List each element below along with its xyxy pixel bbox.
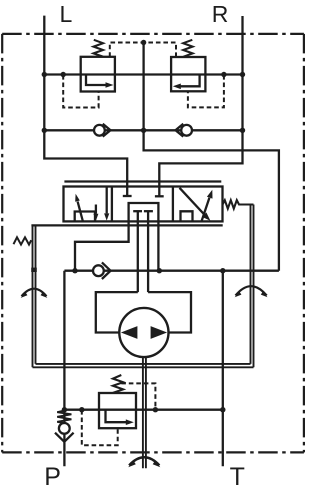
- svg-text:P: P: [44, 463, 61, 491]
- wire pilot/LS loop: [144, 43, 279, 271]
- steering shaft (double line): [143, 357, 146, 468]
- metering motor M1: [119, 308, 168, 357]
- DV right centering spring: [223, 200, 254, 208]
- wire L-R main: [44, 73, 242, 75]
- node T bottom junction: [220, 407, 225, 412]
- node RV3 bottom pilot tap: [79, 407, 84, 412]
- feedback rotary arc right: [236, 286, 267, 295]
- directional valve DV lower travel line: [31, 224, 222, 226]
- relief valve RV1 pilot line (bottom, dashed): [63, 75, 98, 108]
- feedback rotary arc left: [22, 289, 47, 297]
- relief valve RV2 internal arrow: [180, 75, 200, 87]
- directional valve DV upper travel line: [64, 180, 221, 182]
- relief valve RV3 pilot line (bottom, dashed): [82, 410, 118, 445]
- wire L port line: [44, 16, 127, 196]
- node R check-row junction: [240, 128, 245, 133]
- check valve C2: [181, 125, 192, 136]
- relief valve RV2 pilot line (bottom, dashed): [188, 75, 224, 107]
- steering wheel arc: [129, 457, 159, 465]
- node RV3 top pilot tap: [153, 407, 158, 412]
- wire motor bridge left: [96, 292, 138, 332]
- relief valve RV2 spring: [183, 40, 192, 57]
- wire P-T bottom row: [64, 409, 222, 411]
- relief valve RV1 body: [81, 57, 115, 92]
- DV right envelope diagonal arrow 1: [180, 188, 205, 215]
- node L main-wire junction: [42, 72, 47, 77]
- relief valve RV2 pilot line (top, dashed): [144, 43, 176, 58]
- DV centre envelope blocked port L (T-bar): [123, 195, 132, 197]
- svg-text:L: L: [60, 1, 73, 27]
- DV centre envelope blocked port R (T-bar): [155, 195, 164, 197]
- feedback linkage right (double line): [251, 205, 254, 368]
- wire check-valve row: [44, 129, 242, 131]
- node P line junction: [62, 407, 67, 412]
- wire T return line: [222, 271, 224, 467]
- DV left envelope long down arrow: [106, 187, 108, 213]
- DV left envelope chamber box: [75, 212, 95, 222]
- node mid check-row junction: [141, 128, 146, 133]
- wire DV metering line 2: [147, 211, 149, 292]
- relief valve RV3 pilot line (top, dashed): [121, 383, 155, 409]
- node RV1 pilot tap: [61, 72, 66, 77]
- wire R port line: [159, 16, 242, 196]
- directional valve DV envelope divider 2: [172, 187, 174, 222]
- directional valve DV body: [64, 187, 223, 222]
- wire DV P-metering port down to check C3: [75, 221, 129, 270]
- node C3 inlet junction: [72, 268, 77, 273]
- check valve C4 with spring: [59, 423, 70, 434]
- wire P supply line: [63, 271, 65, 467]
- relief valve RV3 body: [99, 393, 136, 428]
- relief valve RV3 spring: [113, 375, 123, 393]
- wire DV tank port down: [157, 221, 159, 270]
- node T riser junction: [220, 268, 225, 273]
- relief valve RV1 spring: [94, 40, 104, 57]
- DV left envelope short down arrow: [95, 205, 97, 214]
- DV left envelope diagonal arrow: [78, 202, 83, 222]
- node RV2 pilot tap: [221, 72, 226, 77]
- relief valve RV1 pilot line (top, dashed): [110, 43, 144, 57]
- relief valve RV2 body: [171, 57, 205, 91]
- wire motor bridge right: [148, 292, 191, 332]
- DV right envelope chamber box: [181, 211, 193, 221]
- svg-text:T: T: [230, 463, 245, 491]
- enclosure border: [2, 33, 304, 35]
- DV right envelope diagonal arrow 2: [202, 198, 210, 221]
- node pilot line tap: [141, 40, 146, 45]
- DV centre envelope metering sub-box: [129, 203, 159, 221]
- DV sub-box closed line 1 (T-bar): [133, 210, 142, 212]
- node L check-row junction: [42, 128, 47, 133]
- wire inlet row (check C3 row): [64, 270, 279, 272]
- feedback centering spring left: [14, 237, 32, 244]
- node R main-wire junction: [240, 72, 245, 77]
- feedback linkage joint tick: [31, 268, 37, 272]
- feedback linkage bottom (double line): [33, 364, 254, 367]
- DV sub-box closed line 2 (T-bar): [144, 210, 153, 212]
- relief valve RV3 internal arrow: [106, 410, 127, 423]
- check valve C1: [94, 125, 105, 136]
- svg-text:R: R: [212, 1, 229, 27]
- node tank line junction: [157, 268, 162, 273]
- check valve C3: [93, 265, 104, 276]
- feedback linkage left (double line): [33, 225, 36, 367]
- directional valve DV envelope divider 1: [111, 187, 113, 222]
- relief valve RV1 internal arrow: [86, 75, 107, 86]
- wire DV metering line 1: [137, 211, 139, 292]
